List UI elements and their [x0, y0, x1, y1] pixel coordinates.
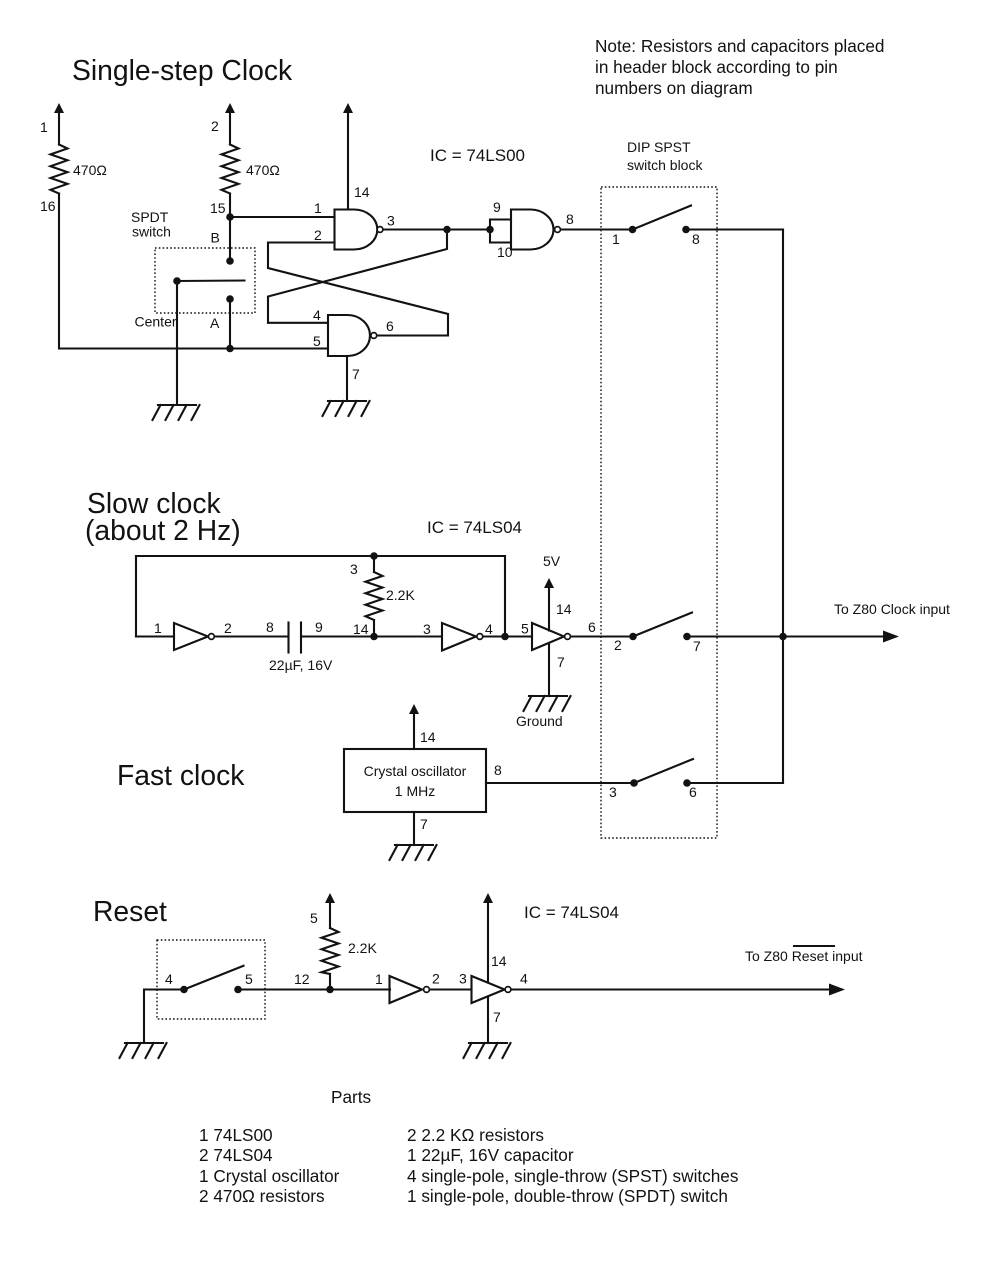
node 15 junction: [226, 213, 234, 221]
wire clock output: [687, 635, 886, 637]
wire S1 to bus: [686, 228, 783, 230]
svg-text:4: 4: [485, 621, 493, 637]
svg-text:1 22µF, 16V capacitor: 1 22µF, 16V capacitor: [407, 1145, 574, 1165]
svg-text:5: 5: [313, 333, 321, 349]
svg-text:3: 3: [423, 621, 431, 637]
switch S2 lever: [633, 613, 692, 637]
svg-text:470Ω: 470Ω: [73, 162, 107, 178]
U2c bubble: [565, 634, 571, 640]
svg-text:Fast clock: Fast clock: [117, 759, 245, 791]
wire R1 top stem: [58, 112, 60, 145]
wire U1a output to node: [383, 228, 490, 230]
U1c output bubble: [555, 227, 561, 233]
svg-text:1: 1: [612, 231, 620, 247]
svg-text:6: 6: [689, 784, 697, 800]
wire reset left to ground: [144, 990, 185, 1044]
node loop-R3 junction: [370, 552, 378, 560]
svg-text:5: 5: [310, 910, 318, 926]
resistor R3 2.2K: [366, 556, 383, 637]
SPDT dotted box: [155, 248, 255, 313]
svg-text:1 Crystal oscillator: 1 Crystal oscillator: [199, 1166, 340, 1186]
reset switch dotted box: [157, 940, 265, 1019]
switch S3 contact dot: [683, 779, 691, 787]
svg-text:Reset: Reset: [93, 895, 167, 927]
switch S2 contact dot: [683, 633, 691, 641]
wire R2 bottom to node: [229, 194, 231, 218]
svg-text:5: 5: [521, 621, 529, 637]
power arrow U3b 5V: [483, 893, 493, 903]
svg-text:1: 1: [154, 620, 162, 636]
svg-text:1: 1: [314, 200, 322, 216]
svg-text:12: 12: [294, 971, 310, 987]
contact A dot: [226, 295, 234, 303]
wire crystal out to S3: [486, 782, 634, 784]
svg-text:A: A: [210, 315, 220, 331]
svg-text:switch block: switch block: [627, 157, 703, 173]
svg-text:IC = 74LS04: IC = 74LS04: [524, 903, 619, 922]
crystal oscillator box: [344, 749, 486, 812]
svg-text:Single-step Clock: Single-step Clock: [72, 54, 293, 86]
svg-text:numbers on diagram: numbers on diagram: [595, 78, 753, 98]
svg-text:5V: 5V: [543, 553, 561, 569]
svg-text:8: 8: [566, 211, 574, 227]
inverter U3b: [472, 976, 505, 1003]
wire feedback out3 to pin4: [268, 230, 447, 323]
node R4 junction: [326, 986, 334, 994]
wire loop to INV1: [136, 635, 174, 637]
svg-text:15: 15: [210, 200, 226, 216]
svg-text:4: 4: [520, 971, 528, 987]
SPDT pole dot: [173, 277, 181, 285]
svg-text:3: 3: [350, 561, 358, 577]
svg-text:Ground: Ground: [516, 713, 563, 729]
svg-text:Parts: Parts: [331, 1087, 371, 1107]
power arrow pin1: [54, 103, 64, 113]
inverter U2c: [532, 623, 564, 650]
svg-text:7: 7: [693, 638, 701, 654]
svg-text:9: 9: [493, 199, 501, 215]
wire contact A to pin5 rail: [229, 299, 231, 349]
svg-text:4: 4: [313, 307, 321, 323]
U3a bubble: [424, 987, 430, 993]
svg-text:22µF, 16V: 22µF, 16V: [269, 657, 333, 673]
svg-text:To Z80 Reset input: To Z80 Reset input: [745, 948, 863, 964]
wire pin14: [347, 112, 349, 210]
ground crystal pin7: [390, 845, 437, 860]
wire pins 9-10 tie bracket: [490, 220, 511, 243]
wire U1c output to switch: [561, 228, 632, 230]
svg-text:Center: Center: [135, 314, 177, 330]
svg-text:14: 14: [556, 601, 572, 617]
wire R2 top stem: [229, 112, 231, 145]
svg-text:6: 6: [386, 318, 394, 334]
svg-text:2.2K: 2.2K: [386, 587, 415, 603]
ground SPDT pole: [153, 405, 200, 420]
node bus junction: [779, 633, 787, 641]
svg-text:1: 1: [375, 971, 383, 987]
wire S4 to INV: [238, 988, 390, 990]
U1a output bubble: [377, 227, 383, 233]
wire U3b pin14: [487, 902, 489, 982]
wire U2a out to cap: [215, 635, 289, 637]
wire pole to ground: [176, 281, 178, 405]
power arrow U2c 5V: [544, 578, 554, 588]
svg-text:2.2K: 2.2K: [348, 940, 377, 956]
resistor R1 470ohm: [51, 145, 68, 194]
switch S1 contact dot: [682, 226, 690, 234]
svg-text:8: 8: [494, 762, 502, 778]
svg-text:5: 5: [245, 971, 253, 987]
wire S3 to bus: [687, 782, 783, 784]
svg-text:7: 7: [557, 654, 565, 670]
svg-text:(about 2 Hz): (about 2 Hz): [85, 514, 241, 546]
switch S3 pole dot: [630, 779, 638, 787]
switch S3 lever: [634, 759, 693, 783]
svg-text:7: 7: [493, 1009, 501, 1025]
svg-text:IC = 74LS04: IC = 74LS04: [427, 518, 522, 537]
svg-text:2: 2: [614, 637, 622, 653]
svg-text:470Ω: 470Ω: [246, 162, 280, 178]
reset output arrowhead: [829, 984, 845, 996]
svg-text:To Z80 Clock input: To Z80 Clock input: [834, 601, 950, 617]
svg-text:2 470Ω resistors: 2 470Ω resistors: [199, 1186, 325, 1206]
svg-text:Crystal oscillator: Crystal oscillator: [364, 763, 467, 779]
svg-text:2 2.2 KΩ resistors: 2 2.2 KΩ resistors: [407, 1125, 544, 1145]
wire R1 bottom to pin5 rail: [59, 194, 328, 349]
ground U3b pin7: [464, 1043, 511, 1058]
switch S4 lever: [184, 966, 244, 990]
svg-text:in header block according to p: in header block according to pin: [595, 57, 838, 77]
U3b bubble: [505, 987, 511, 993]
switch S2 pole dot: [629, 633, 637, 641]
wire node15 down to contact B: [229, 217, 231, 261]
wire U3b pin7 to ground: [487, 997, 489, 1044]
U1b output bubble: [371, 333, 377, 339]
ground reset left: [120, 1043, 167, 1058]
wire U2c pin14: [548, 587, 550, 631]
svg-text:2: 2: [314, 227, 322, 243]
svg-text:8: 8: [692, 231, 700, 247]
svg-text:switch: switch: [132, 224, 171, 240]
wire crystal pin7: [413, 812, 415, 845]
power arrow R4: [325, 893, 335, 903]
svg-text:1: 1: [40, 119, 48, 135]
svg-text:14: 14: [491, 953, 507, 969]
svg-text:16: 16: [40, 198, 56, 214]
inverter U2b: [442, 623, 476, 651]
switch S1 pole dot: [629, 226, 637, 234]
power arrow crystal 14: [409, 704, 419, 714]
svg-text:2 74LS04: 2 74LS04: [199, 1145, 273, 1165]
wire U2c out to switch S2: [571, 635, 633, 637]
power arrow pin14 of 74LS00: [343, 103, 353, 113]
svg-text:3: 3: [459, 971, 467, 987]
node A-rail junction: [226, 345, 234, 353]
svg-text:3: 3: [387, 213, 395, 229]
Reset overline: [794, 945, 834, 947]
ground U2c pin7: [524, 696, 571, 711]
svg-text:14: 14: [353, 621, 369, 637]
DIP switch block dotted box: [601, 187, 717, 838]
wire feedback loop top: [136, 556, 505, 637]
svg-text:2: 2: [432, 971, 440, 987]
wire node15 to NAND1 pin1: [230, 216, 335, 218]
wire U2c pin7 to ground: [548, 643, 550, 696]
wire U3a to U3b: [430, 988, 472, 990]
inverter U2a: [174, 623, 208, 650]
svg-text:2: 2: [211, 118, 219, 134]
wire U1b pin7: [346, 356, 348, 401]
node R3 bottom junction: [370, 633, 378, 641]
svg-text:4: 4: [165, 971, 173, 987]
switch S1 lever: [633, 206, 692, 230]
ground U1b pin7: [323, 401, 370, 416]
wire cap to INV2: [301, 635, 440, 637]
power arrow pin2: [225, 103, 235, 113]
capacitor C1: [289, 623, 302, 653]
inverter U3a: [390, 976, 423, 1003]
svg-text:6: 6: [588, 619, 596, 635]
wire crystal pin14: [413, 713, 415, 749]
svg-text:3: 3: [609, 784, 617, 800]
svg-text:Note: Resistors and capacitors: Note: Resistors and capacitors placed: [595, 36, 884, 56]
node out3 junction: [443, 226, 451, 234]
svg-text:4 single-pole, single-throw (S: 4 single-pole, single-throw (SPST) switc…: [407, 1166, 738, 1186]
svg-text:1 MHz: 1 MHz: [395, 783, 435, 799]
svg-text:1 single-pole, double-throw (S: 1 single-pole, double-throw (SPDT) switc…: [407, 1186, 728, 1206]
svg-text:10: 10: [497, 244, 513, 260]
wire U2b out to INV3: [483, 635, 532, 637]
SPDT lever: [177, 279, 245, 282]
NAND gate U1a: [335, 210, 378, 250]
resistor R2 470ohm: [222, 145, 239, 194]
switch S4 contact dot: [234, 986, 242, 994]
svg-text:8: 8: [266, 619, 274, 635]
wire right bus: [782, 230, 784, 784]
svg-text:14: 14: [354, 184, 370, 200]
svg-text:DIP SPST: DIP SPST: [627, 139, 691, 155]
node pin9-10 junction: [486, 226, 494, 234]
NAND gate U1b: [328, 315, 370, 356]
resistor R4 2.2K: [322, 902, 339, 990]
wire reset output: [511, 988, 832, 990]
svg-text:1 74LS00: 1 74LS00: [199, 1125, 273, 1145]
svg-text:IC = 74LS00: IC = 74LS00: [430, 146, 525, 165]
svg-text:7: 7: [420, 816, 428, 832]
svg-text:9: 9: [315, 619, 323, 635]
U2b bubble: [477, 634, 483, 640]
svg-text:14: 14: [420, 729, 436, 745]
clock output arrowhead: [883, 631, 899, 643]
contact B dot: [226, 257, 234, 265]
svg-text:7: 7: [352, 366, 360, 382]
svg-text:B: B: [211, 230, 220, 246]
svg-text:2: 2: [224, 620, 232, 636]
node feedback junction: [501, 633, 509, 641]
U2a bubble: [209, 634, 215, 640]
NAND gate U1c: [511, 210, 554, 250]
wire feedback out6 to pin2: [268, 243, 448, 336]
switch S4 pole dot: [180, 986, 188, 994]
